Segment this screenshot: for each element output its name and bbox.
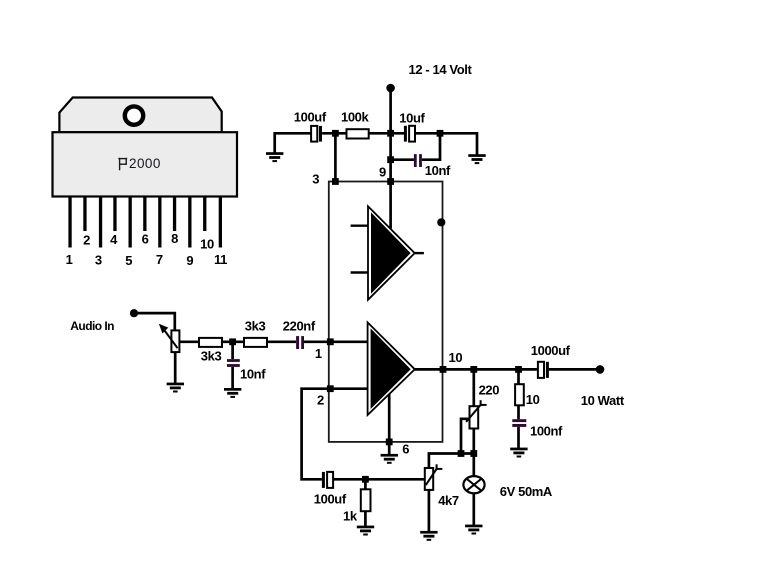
wire: pin 6 drop to ground <box>388 394 391 454</box>
junction: supply / 10nf <box>387 156 394 163</box>
junction: lamp line on 4k7 row <box>470 450 477 457</box>
svg-text:3: 3 <box>95 253 102 268</box>
svg-text:1: 1 <box>315 346 322 361</box>
wire: 4k7 bottom to ground <box>428 490 431 531</box>
pin label 7 <box>156 252 163 267</box>
label 3k3 second <box>245 319 266 334</box>
ground: 100nf <box>510 448 527 458</box>
svg-text:4: 4 <box>110 232 118 247</box>
svg-text:6: 6 <box>142 231 149 246</box>
pin label 3 <box>95 253 102 268</box>
label pin 2 <box>317 393 324 408</box>
wire: audio input to potentiometer top <box>134 313 175 330</box>
ground: pin 6 <box>381 454 398 464</box>
IC package drawing: TDA2000 pinout <box>53 98 238 269</box>
svg-text:6V 50mA: 6V 50mA <box>500 484 553 499</box>
svg-text:7: 7 <box>156 252 163 267</box>
junction: feedback / 1k <box>362 476 369 483</box>
op-amp A1 input stub - <box>351 271 368 273</box>
wire: 10nf branch from supply line <box>391 158 414 161</box>
pin 6 lead <box>143 197 146 232</box>
wire: 4k7 top riser and row to lamp line <box>429 454 474 469</box>
svg-text:10nf: 10nf <box>240 367 266 382</box>
package marking glyph <box>118 158 127 171</box>
capacitor 10nf (top, purple) <box>414 154 422 167</box>
wire: 3k3 to 3k3 link <box>222 340 244 343</box>
wire: bus between 100k and 10uf <box>369 132 404 135</box>
junction: pin 10 on box <box>440 366 447 373</box>
wire: 100nf to ground <box>517 427 520 448</box>
wire: 10nf shunt drop lower to ground <box>231 367 234 389</box>
svg-text:9: 9 <box>379 164 386 179</box>
wire: 100uf to 4k7 wiper row <box>333 478 425 481</box>
wire: 10nf to bus junction riser <box>422 133 440 159</box>
label pin 10 <box>449 350 463 365</box>
svg-text:1k: 1k <box>343 509 358 524</box>
junction: pin 9 on box <box>387 178 394 185</box>
ground: top bus right <box>468 154 485 164</box>
package mounting hole <box>125 106 143 124</box>
junction: output / 220 branch <box>470 366 477 373</box>
pin 4 lead <box>113 197 116 232</box>
pin 10 lead <box>203 197 206 232</box>
svg-text:11: 11 <box>214 252 227 267</box>
svg-text:9: 9 <box>186 253 193 268</box>
svg-text:10: 10 <box>449 350 463 365</box>
svg-text:100nf: 100nf <box>530 424 563 439</box>
label 10nf input <box>240 367 266 382</box>
svg-text:220: 220 <box>479 383 500 398</box>
pin label 10 <box>200 236 214 251</box>
label 10nf top <box>425 163 451 178</box>
wire: pot wiper out to 3k3 <box>179 340 199 343</box>
wire: 3k3 to 220nf <box>267 340 296 343</box>
wire: 1k bottom to ground <box>364 511 367 526</box>
label 1k <box>343 509 358 524</box>
wire: bus between 100uf and 100k <box>322 132 346 135</box>
package body <box>53 132 238 196</box>
label 100nf <box>530 424 563 439</box>
junction: bus / 10nf riser <box>437 130 444 137</box>
ground: potentiometer <box>167 383 184 393</box>
svg-text:3k3: 3k3 <box>201 349 222 364</box>
label 100k <box>341 110 369 125</box>
label 10 Watt <box>581 393 625 408</box>
op-amp A1 (upper half of IC) <box>368 206 415 299</box>
potentiometer (volume) <box>159 324 180 352</box>
label 220 <box>479 383 500 398</box>
ground: input 10nf <box>224 388 241 398</box>
wire: pin 3 drop to IC box <box>334 133 337 181</box>
label 4k7 <box>438 493 459 508</box>
wire: supply vertical (12-14V terminal down through pin 9 into upper amp) <box>389 88 392 229</box>
svg-text:6: 6 <box>402 442 409 457</box>
junction: bus / supply <box>387 130 394 137</box>
svg-text:1000uf: 1000uf <box>531 343 571 358</box>
wire: output pin 10 row to 1000uf <box>415 368 538 371</box>
svg-text:3k3: 3k3 <box>245 319 266 334</box>
label 12 - 14 Volt <box>409 62 473 77</box>
wire: 10 ohm to 100nf <box>517 405 520 419</box>
pin 11 lead <box>219 197 222 248</box>
svg-text:100uf: 100uf <box>294 110 327 125</box>
label 100uf top <box>294 110 327 125</box>
pin label 8 <box>171 231 178 246</box>
label 3k3 first <box>201 349 222 364</box>
svg-text:4k7: 4k7 <box>438 493 459 508</box>
svg-text:10: 10 <box>526 392 540 407</box>
wire: pot bottom to ground <box>174 352 177 383</box>
svg-text:2: 2 <box>83 233 90 248</box>
junction: output / 10 ohm branch <box>515 366 522 373</box>
pin 3 lead <box>99 197 102 248</box>
svg-text:10uf: 10uf <box>399 110 425 125</box>
lamp 6V 50mA <box>463 476 484 493</box>
ground: 1k <box>357 526 374 536</box>
capacitor 10uf (electrolytic) <box>404 126 415 142</box>
ground: 4k7 <box>420 531 437 541</box>
wire: 10 ohm branch from output <box>517 369 520 384</box>
terminal: audio input <box>130 309 138 317</box>
package marking text 2000 <box>129 156 161 171</box>
trimmer 220 <box>466 400 487 428</box>
wire: 1k top branch <box>364 479 367 489</box>
svg-text:1: 1 <box>66 252 73 267</box>
resistor 3k3 (first) <box>199 338 222 347</box>
junction: pin 1 on box <box>327 338 334 345</box>
ground: lamp <box>465 525 482 535</box>
svg-text:2000: 2000 <box>129 156 161 171</box>
wire: 220nf to pin 1 input <box>304 340 368 343</box>
svg-text:2: 2 <box>317 393 324 408</box>
terminal: 12-14V supply <box>386 84 395 93</box>
IC box U1 outline <box>329 182 443 442</box>
wire: 220 trimmer top branch <box>472 369 475 406</box>
pin label 11 <box>214 252 227 267</box>
svg-text:220nf: 220nf <box>283 319 316 334</box>
pin 7 lead <box>158 197 161 248</box>
capacitor 220nf (purple) <box>296 336 304 349</box>
svg-text:100uf: 100uf <box>314 492 347 507</box>
terminal: speaker output <box>596 365 605 374</box>
label pin 6 <box>402 442 409 457</box>
svg-text:10: 10 <box>200 236 214 251</box>
junction: pin 6 on box <box>386 439 393 446</box>
op-amp A1 input stub + <box>351 224 368 226</box>
pin 1 lead <box>68 197 71 248</box>
trimmer 4k7 <box>425 464 443 490</box>
junction: pin 3 on box <box>332 178 339 185</box>
resistor 1k <box>361 489 371 511</box>
op-amp A1 output stub <box>415 252 424 254</box>
pin 8 lead <box>173 197 176 232</box>
junction: 10nf shunt tap <box>229 338 236 345</box>
wire: bus between 10uf and right ground drop <box>415 133 477 154</box>
label pin 9 <box>379 164 386 179</box>
svg-text:5: 5 <box>125 253 132 268</box>
op-amp A2 (lower half of IC) <box>368 322 415 415</box>
label 10uf <box>399 110 425 125</box>
wire: 220 trimmer bottom to lamp <box>472 429 475 478</box>
wire: 1000uf to output terminal <box>549 368 600 371</box>
label 10 ohm <box>526 392 540 407</box>
capacitor 1000uf (electrolytic) <box>538 362 549 378</box>
svg-text:8: 8 <box>171 231 178 246</box>
label 100uf feedback <box>314 492 347 507</box>
label pin 3 <box>312 172 319 187</box>
label 1000uf <box>531 343 571 358</box>
wire: top bus left segment with ground drop <box>275 133 311 152</box>
svg-text:3: 3 <box>312 172 319 187</box>
svg-text:100k: 100k <box>341 110 369 125</box>
resistor 100k <box>347 129 369 138</box>
capacitor 100uf (top, electrolytic) <box>311 126 322 142</box>
junction: box right edge node <box>437 218 445 226</box>
pin label 5 <box>125 253 132 268</box>
pin 5 lead <box>129 197 132 248</box>
pin label 2 <box>83 233 90 248</box>
pin 9 lead <box>188 197 191 248</box>
pin label 9 <box>186 253 193 268</box>
junction: pin 2 on box <box>327 385 334 392</box>
svg-text:12 - 14 Volt: 12 - 14 Volt <box>409 62 473 77</box>
wire: 10nf shunt drop upper <box>231 342 234 359</box>
ground: top bus left <box>266 152 283 162</box>
wire: pin 2 feedback down-left to 100uf <box>302 389 368 480</box>
label pin 1 <box>315 346 322 361</box>
label 220nf <box>283 319 316 334</box>
schematic wires <box>134 88 600 531</box>
resistor 10 <box>515 384 524 405</box>
capacitor 10nf (input shunt, purple) <box>227 359 240 367</box>
label Audio In <box>70 319 114 333</box>
package mounting tab <box>59 98 221 133</box>
capacitor 100nf (purple) <box>512 419 526 427</box>
resistor 3k3 (second) <box>244 338 267 347</box>
wire: lamp bottom to ground <box>472 493 475 525</box>
junction: 220 wiper on 4k7 row <box>458 450 465 457</box>
junction: bus / pin3 <box>332 130 339 137</box>
pin label 6 <box>142 231 149 246</box>
capacitor 100uf (feedback, electrolytic) <box>322 472 333 488</box>
label 6V 50mA <box>500 484 553 499</box>
wire: 220 wiper down to 4k7 row <box>461 419 470 454</box>
pin 2 lead <box>83 197 86 232</box>
svg-text:Audio In: Audio In <box>70 319 114 333</box>
pin label 4 <box>110 232 118 247</box>
pin label 1 <box>66 252 73 267</box>
svg-text:10nf: 10nf <box>425 163 451 178</box>
svg-text:10 Watt: 10 Watt <box>581 393 625 408</box>
